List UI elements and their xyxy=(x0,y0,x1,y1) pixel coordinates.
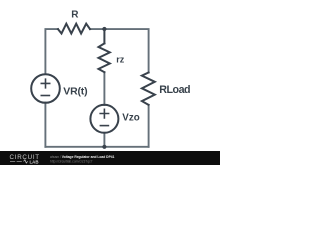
wire top-right segment xyxy=(90,29,149,72)
node junction dot bottom xyxy=(102,145,106,149)
wire left vertical bottom xyxy=(44,103,46,147)
svg-text:R: R xyxy=(71,9,79,20)
svg-text:Vzo: Vzo xyxy=(122,113,139,124)
svg-text:RLoad: RLoad xyxy=(159,84,190,96)
wire right vertical bottom xyxy=(148,105,150,147)
Vzo minus sign xyxy=(100,125,110,127)
VR(t) plus sign xyxy=(41,78,51,88)
voltage source Vzo circle xyxy=(90,105,118,133)
footer bar xyxy=(0,151,220,165)
wire Vzo to bottom xyxy=(103,133,105,147)
wire rz to Vzo xyxy=(103,72,105,105)
resistor R xyxy=(58,24,90,34)
VR(t) minus sign xyxy=(41,95,51,97)
node junction dot top xyxy=(102,27,106,31)
Vzo plus sign xyxy=(99,109,109,119)
svg-text:http://circuitlab.com/c/z37qc7: http://circuitlab.com/c/z37qc7 xyxy=(50,160,93,164)
svg-text:VR(t): VR(t) xyxy=(63,86,87,98)
CircuitLab logo xyxy=(10,154,40,164)
voltage source VR(t) circle xyxy=(31,74,60,103)
wire left vertical top + top lead xyxy=(45,29,58,73)
svg-text:LAB: LAB xyxy=(30,159,39,164)
resistor rz xyxy=(99,43,110,72)
resistor RLoad xyxy=(142,73,155,105)
wire middle vertical top xyxy=(103,29,105,44)
wire bottom horizontal xyxy=(45,146,148,148)
svg-text:ahusn / Voltage Regulator and: ahusn / Voltage Regulator and Load DP41 xyxy=(50,155,115,159)
svg-text:rz: rz xyxy=(116,55,125,65)
